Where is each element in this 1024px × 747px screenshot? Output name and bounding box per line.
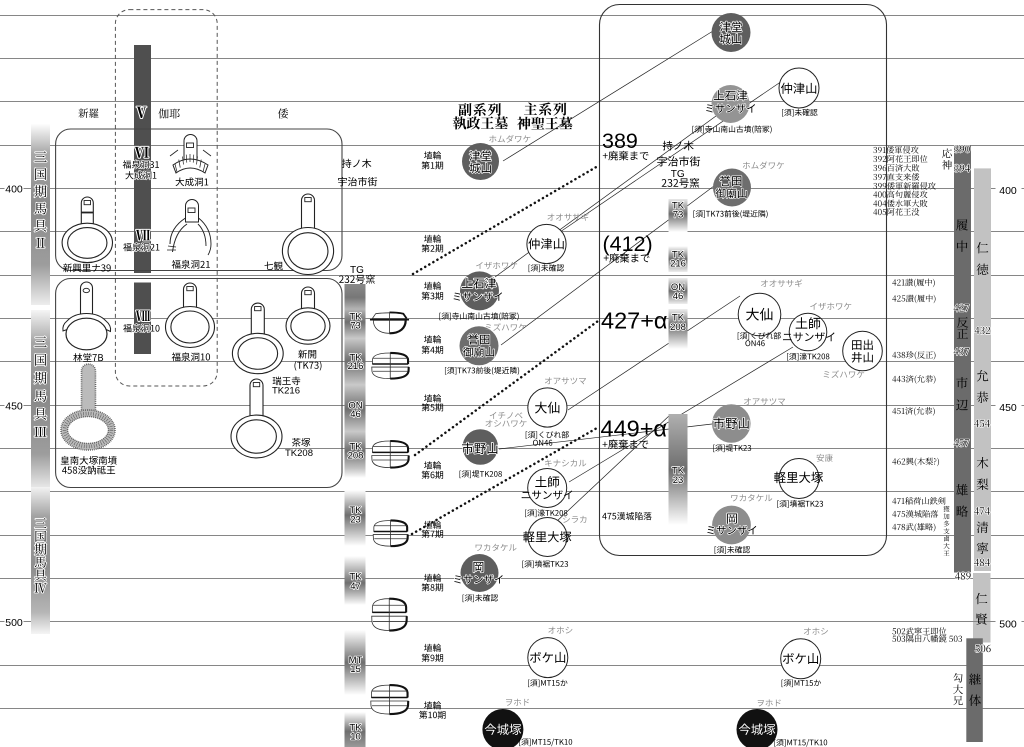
- label 木梨: [977, 457, 989, 490]
- sueki vessel P3 (TK23): [374, 520, 407, 531]
- stirrup 茶塚: [250, 379, 263, 421]
- in-box sueki bar gq1: [669, 199, 688, 232]
- bar A year 390: [954, 145, 969, 152]
- stirrup fragment 大成洞1 (dashed col): [184, 135, 197, 161]
- label 福泉洞31: [123, 160, 159, 168]
- svg-text:47: 47: [350, 581, 361, 592]
- event 425讃(履中): [892, 295, 935, 304]
- gaya bar segment B: [134, 283, 151, 355]
- katakana オアサツマ (left): [545, 377, 586, 384]
- label VI: [135, 147, 149, 158]
- dashed box (Gaya column): [115, 10, 217, 386]
- era bar 三国期馬具III: [31, 310, 50, 490]
- label 埴輪第7期: [424, 521, 441, 529]
- bar A year 394: [954, 164, 970, 171]
- tomb circle 津堂城山 (left): [462, 143, 499, 180]
- label V: [137, 107, 147, 118]
- label [須]未確認 (box 岡): [715, 546, 750, 554]
- bar A year 427: [954, 304, 969, 311]
- label [須]MT15/TK10 (left): [519, 738, 572, 746]
- tomb circle 田出井山 (box): [843, 331, 883, 371]
- event 503隅田八幡鏡 503: [892, 635, 962, 643]
- stirrup 福泉洞10 (dashed col): [184, 283, 197, 313]
- label 獲加多支鹵大王: [943, 506, 949, 556]
- tomb circle 上石津ミサンザイ (box): [712, 85, 750, 123]
- svg-text:500: 500: [999, 619, 1017, 631]
- svg-text:TK216: TK216: [272, 385, 300, 396]
- katakana ホムダワケ (left): [489, 135, 530, 143]
- right axis year 500: [996, 617, 1022, 630]
- wire connector 土師ニサンザイ: [569, 347, 793, 482]
- tomb circle 大仙 (left): [528, 388, 567, 427]
- katakana オホシ (right): [804, 628, 828, 635]
- bar B year 432: [975, 327, 991, 334]
- gaya bar segment A: [134, 45, 151, 273]
- label 福泉洞21 (bar): [123, 243, 159, 251]
- svg-text:400: 400: [5, 184, 23, 196]
- label [須]TK73前後(堤近隣) (box): [693, 210, 767, 218]
- bar B year 474: [974, 507, 990, 514]
- event 396百済大敗: [873, 164, 919, 172]
- event 438珍(反正): [892, 351, 935, 360]
- tomb circle 軽里大塚 (box): [779, 459, 819, 499]
- katakana ワカタケル (box): [731, 494, 772, 501]
- stirrup 新開: [302, 287, 315, 314]
- svg-text:10: 10: [350, 731, 361, 742]
- right axis year 400: [996, 184, 1022, 197]
- sueki bar run1 (TK73-TK208): [345, 284, 366, 478]
- event 421讃(履中): [892, 279, 935, 288]
- sueki vessel P5 (MT15/TK10): [371, 685, 407, 697]
- svg-text:(412): (412): [603, 232, 653, 256]
- tomb circle 今城塚 (left): [482, 709, 523, 747]
- stirrup 皇南大塚 (stippled): [82, 364, 96, 412]
- label [須]未確認 (box 仲津山): [782, 109, 817, 117]
- wire connector 上石津ミサンザイ: [495, 116, 716, 277]
- label 勾大兄: [953, 673, 963, 705]
- in-box sueki bar gq4: [669, 309, 688, 349]
- label [須]濠TK208 (left): [525, 509, 567, 517]
- label [須]墳裾TK23 (left): [522, 560, 568, 568]
- label [須]未確認 (left 仲津山): [529, 264, 564, 272]
- in-box sueki bar gq2: [669, 246, 688, 272]
- katakana ミズハワケ (box): [824, 370, 864, 378]
- svg-text:500: 500: [5, 617, 23, 629]
- tomb circle 津堂城山 (box): [712, 13, 751, 52]
- dotted line to 427: [415, 321, 598, 455]
- tomb circle 市野山 (left): [463, 429, 499, 465]
- label [須]くびれ部ON46 (box): [738, 332, 781, 340]
- katakana イザホワケ (left): [476, 262, 517, 269]
- katakana ワカタケル (left): [476, 544, 517, 551]
- wire connector 誉田御廟山: [501, 186, 714, 345]
- wire connector 市野山: [499, 424, 712, 449]
- label 允恭: [977, 370, 989, 403]
- svg-text:23: 23: [673, 475, 684, 486]
- label 埴輪第4期: [424, 335, 441, 343]
- sueki bar run4 (MT15): [345, 630, 366, 695]
- event 400高句麗侵攻: [873, 191, 927, 199]
- katakana イチノベオシハワケ (left): [490, 412, 523, 419]
- wire connector 仲津山: [560, 80, 784, 232]
- header 執政王墓: [453, 116, 508, 129]
- stirrup 瑞王寺: [251, 303, 264, 339]
- label 埴輪第5期: [424, 394, 441, 402]
- label 持ノ木 (outer): [342, 159, 371, 168]
- tomb circle 今城塚 (right): [737, 709, 778, 747]
- katakana ヲホド (left): [506, 699, 529, 706]
- stirrup 福泉洞21 (dashed col): [186, 200, 199, 223]
- label [須]堤TK208 (left): [460, 470, 502, 478]
- label 475漢城陥落 (in box): [602, 512, 651, 520]
- svg-text:46: 46: [673, 291, 684, 302]
- label [須]MT15か (left): [528, 679, 567, 687]
- in-box sueki bar gq5: [669, 414, 688, 525]
- stirrup 新興里ナ39: [81, 197, 93, 229]
- sueki vessel P1 (TK73): [372, 313, 406, 319]
- tomb circle 誉田御廟山 (left): [460, 326, 499, 365]
- svg-text:400: 400: [999, 185, 1017, 197]
- sueki bar run3 (TK47): [345, 556, 366, 605]
- header 神聖王墓: [517, 117, 572, 130]
- sueki bar run2 (TK23): [345, 490, 366, 546]
- svg-text:23: 23: [350, 514, 361, 525]
- label [須]MT15/TK10 (right): [774, 739, 827, 747]
- bar B year 484: [974, 559, 990, 566]
- event 443済(允恭): [892, 375, 935, 384]
- label 福泉洞10 (bar): [123, 324, 159, 332]
- event 478武(雄略): [892, 523, 935, 532]
- tomb circle 土師ニサンザイ (box): [789, 313, 827, 351]
- svg-text:73: 73: [350, 320, 361, 331]
- left axis year 450: [5, 399, 24, 411]
- emperor bar A (390-489 応神..雄略): [954, 145, 971, 572]
- tomb circle 市野山 (box): [712, 404, 751, 443]
- svg-text:216: 216: [348, 361, 364, 372]
- dotted line to 449: [412, 428, 597, 534]
- label [須]くびれ部ON46 (left): [526, 431, 569, 439]
- katakana イザホワケ (box): [810, 303, 851, 310]
- label 持ノ木 (in-box): [663, 141, 694, 151]
- katakana シラカ (left): [563, 516, 586, 523]
- katakana オアサツマ (box): [744, 398, 785, 405]
- stirrup 林堂7B: [81, 282, 93, 316]
- header 伽耶: [158, 108, 179, 118]
- label 仁賢: [976, 593, 988, 625]
- event 462興(木梨?): [892, 458, 939, 467]
- tomb circle 仲津山 (left): [527, 224, 566, 263]
- emperor bar 継体: [966, 638, 983, 742]
- era bar 三国期馬具IV: [31, 487, 50, 634]
- label 応神: [942, 149, 952, 170]
- tomb circle 仲津山 (box): [779, 68, 819, 108]
- label 反正: [957, 317, 968, 338]
- header 倭: [278, 108, 288, 118]
- event 451済(允恭): [892, 407, 935, 416]
- label 埴輪第10期: [424, 701, 441, 709]
- tomb circle 誉田御廟山 (box): [713, 169, 751, 207]
- svg-text:TG: TG: [350, 265, 364, 276]
- svg-text:389: 389: [602, 129, 638, 153]
- in-box sueki bar gq3: [669, 278, 688, 304]
- era bar 三国期馬具II: [31, 124, 50, 305]
- header 新羅: [78, 108, 98, 118]
- bar B year 454: [974, 420, 990, 427]
- event 397直支来倭: [873, 173, 919, 181]
- header 主系列: [524, 102, 566, 115]
- label 大成洞1: [125, 171, 156, 179]
- bar A year 457: [954, 439, 969, 446]
- event 502武寧王即位: [892, 627, 946, 635]
- label 埴輪第2期: [424, 235, 441, 243]
- tomb circle ボケ山 (left): [528, 638, 568, 678]
- label [須]墳裾TK23 (box): [777, 500, 823, 508]
- katakana ヲホド (right): [758, 699, 781, 706]
- svg-text:TK208: TK208: [285, 448, 313, 459]
- header 副系列: [459, 103, 501, 116]
- label 継体: [969, 674, 981, 706]
- label [須]寺山南山古墳(陪冢): [439, 312, 518, 320]
- sueki vessel P1b (TK216): [372, 353, 408, 364]
- left axis year 500: [5, 616, 24, 628]
- event 392阿花王即位: [873, 155, 927, 163]
- svg-text:208: 208: [670, 322, 686, 333]
- label 仁徳: [977, 242, 989, 275]
- label VII: [136, 230, 150, 241]
- emperor bar B (仁徳..清寧): [974, 168, 991, 571]
- label 履中: [956, 219, 968, 252]
- label [須]未確認 (left 岡): [463, 594, 498, 602]
- svg-text:449+α: 449+α: [601, 416, 668, 442]
- event 391倭軍侵攻: [873, 146, 918, 154]
- svg-text:450: 450: [5, 400, 23, 412]
- tomb circle 大仙 (box): [738, 293, 781, 336]
- wire connector 軽里大塚-TK23: [556, 415, 670, 522]
- katakana オオササギ (left): [547, 213, 588, 221]
- tomb circle 岡ミサンザイ (box): [712, 506, 751, 545]
- wire connector 大仙: [568, 296, 740, 410]
- emperor bar 仁賢: [973, 573, 991, 643]
- label 埴輪第3期: [424, 282, 441, 290]
- event 475漢城陥落: [892, 510, 938, 518]
- svg-text:46: 46: [350, 409, 361, 420]
- svg-text:427+α: 427+α: [601, 308, 668, 334]
- tomb circle 上石津ミサンザイ (left): [460, 271, 499, 310]
- event 399倭軍新羅侵攻: [873, 182, 935, 190]
- sueki vessel P2 (TK208): [372, 441, 408, 452]
- tomb circle 岡ミサンザイ (left): [461, 554, 499, 592]
- label 市辺: [956, 377, 968, 410]
- label 宇治市街 (in-box): [657, 156, 700, 166]
- label [須]濠TK208 (box): [787, 353, 829, 361]
- svg-text:15: 15: [350, 664, 361, 675]
- box2 (stirrups group 2): [56, 279, 342, 488]
- bar year 506: [975, 645, 990, 652]
- event 471稲荷山鉄剣: [892, 497, 945, 505]
- svg-text:216: 216: [670, 258, 686, 269]
- svg-text:450: 450: [999, 402, 1017, 414]
- label 埴輪第8期: [424, 574, 441, 582]
- wire connector 津堂城山: [503, 31, 713, 161]
- label [須]堤TK23 (box): [713, 444, 751, 452]
- label VIII: [136, 311, 150, 322]
- stirrup 七観: [302, 194, 315, 233]
- label 雄略: [956, 484, 968, 517]
- label [須]TK73前後(堤近隣) (left): [445, 367, 519, 375]
- label 清寧: [977, 522, 989, 554]
- svg-text:208: 208: [348, 450, 364, 461]
- katakana ホムダワケ (box): [743, 161, 784, 169]
- katakana キナシカル (left): [545, 460, 586, 467]
- bar A year 489: [955, 572, 971, 579]
- tomb circle 軽里大塚 (left): [528, 518, 567, 557]
- box1 (stirrups group 1): [56, 129, 342, 271]
- katakana ミズハワケ (left): [485, 323, 525, 331]
- tomb circle ボケ山 (right): [781, 639, 821, 679]
- katakana 安康 (box): [817, 454, 833, 462]
- sueki bar run5 (TK10): [345, 712, 366, 747]
- label 埴輪第9期: [424, 644, 441, 652]
- katakana オオササギ (box): [761, 279, 802, 287]
- sueki vessel P4 (TK47/MT15): [372, 599, 406, 613]
- label 埴輪第6期: [424, 461, 441, 469]
- right axis year 450: [996, 401, 1022, 414]
- label 埴輪第1期: [424, 151, 441, 159]
- big box (main tomb series): [600, 5, 887, 556]
- label 宇治市街 (outer): [338, 177, 377, 186]
- katakana オホシ (left): [548, 627, 572, 634]
- left axis year 400: [5, 183, 24, 195]
- event 404倭水軍大敗: [873, 200, 927, 208]
- event 405阿花王没: [873, 208, 919, 216]
- tomb circle 土師ニサンザイ (left): [528, 469, 567, 508]
- dotted line to 389: [413, 166, 598, 274]
- svg-text:73: 73: [673, 209, 684, 220]
- label [須]寺山南山古墳(陪冢) (box): [692, 125, 771, 133]
- bar A year 437: [954, 348, 969, 355]
- label [須]MT15か (right): [782, 679, 821, 687]
